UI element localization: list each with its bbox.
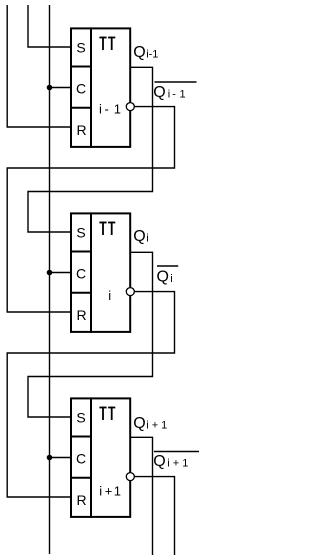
svg-text:i-1: i-1 [146, 49, 158, 61]
circuit schematic: chain of three T flip-flops (TT) stages i-1, i, i+1 [0, 0, 201, 560]
svg-text:Q: Q [133, 44, 145, 61]
wire: U2 inverted output to U3 R input [7, 292, 174, 497]
svg-text:i + 1: i + 1 [146, 420, 167, 432]
wire: clock stub to U2 C pin [50, 272, 71, 274]
wire: S input rail into U1 S pin [28, 5, 70, 47]
svg-text:Q: Q [153, 84, 165, 101]
svg-text:C: C [76, 451, 86, 467]
inversion bubble on U1 Qbar output [126, 103, 134, 111]
svg-text:S: S [76, 39, 85, 55]
junction node on clock rail at U1 [47, 85, 53, 91]
svg-text:+: + [105, 484, 113, 499]
svg-text:i: i [146, 233, 148, 245]
U1 (stage i-1) function label TT [99, 37, 115, 50]
svg-text:Q: Q [133, 228, 145, 245]
svg-text:i: i [170, 273, 172, 285]
svg-text:R: R [76, 122, 86, 138]
svg-text:S: S [76, 224, 85, 240]
flip-flop U2 (stage i) body outline [71, 213, 130, 332]
flip-flop U3 (stage i+1) body outline [71, 398, 130, 517]
U3 (stage i+1) S/C cell divider [70, 436, 92, 438]
U1 stage index label i-1 [99, 102, 121, 117]
svg-text:R: R [76, 307, 86, 323]
junction node on clock rail at U2 [47, 270, 53, 276]
wire: U3 Q output going down off-page [131, 437, 153, 555]
U3 (stage i+1) function label TT [99, 407, 115, 420]
U2 (stage i) function label TT [99, 222, 115, 235]
svg-text:Q: Q [133, 415, 145, 432]
svg-text:R: R [76, 492, 86, 508]
U1 (stage i-1) S/C cell divider [70, 66, 92, 68]
svg-text:i: i [99, 102, 102, 117]
wire: U1 inverted output to U2 R input [7, 107, 174, 312]
U2 (stage i) C/R cell divider [70, 292, 92, 294]
svg-text:C: C [76, 81, 86, 97]
svg-text:i: i [108, 288, 111, 303]
svg-text:-: - [172, 88, 176, 100]
wire: R input rail into U1 R pin [7, 5, 70, 127]
svg-text:i: i [168, 88, 170, 100]
inversion bubble on U3 Qbar output [126, 473, 134, 481]
junction node on clock rail at U3 [47, 455, 53, 461]
wire: U2 Q output to U3 S input [28, 252, 153, 417]
U2 (stage i) pin-field divider [90, 212, 92, 333]
U3 stage index label i+1 [99, 484, 121, 499]
svg-text:i + 1: i + 1 [167, 458, 188, 470]
svg-text:Q: Q [157, 268, 169, 285]
wire: clock rail C (common) [49, 5, 51, 554]
inversion bubble on U2 Qbar output [126, 288, 134, 296]
U3 (stage i+1) C/R cell divider [70, 477, 92, 479]
overline of label Qbar_i+1 [154, 451, 199, 453]
svg-text:1: 1 [114, 484, 121, 499]
wire: U1 Q output to U2 S input [28, 67, 153, 232]
wire: clock stub to U3 C pin [50, 457, 71, 459]
wire: U3 inverted output going down off-page [134, 477, 174, 555]
U2 (stage i) S/C cell divider [70, 251, 92, 253]
U3 (stage i+1) pin-field divider [90, 397, 92, 518]
svg-text:1: 1 [114, 102, 121, 117]
svg-text:-: - [105, 102, 109, 117]
svg-text:1: 1 [180, 88, 186, 100]
flip-flop U1 (stage i-1) body outline [71, 28, 130, 146]
svg-text:S: S [76, 409, 85, 425]
overline of label Qbar_i-1 [155, 81, 197, 83]
U1 (stage i-1) C/R cell divider [70, 107, 92, 109]
wire: clock stub to U1 C pin [50, 87, 71, 89]
svg-text:C: C [76, 266, 86, 282]
U1 (stage i-1) pin-field divider [90, 27, 92, 147]
svg-text:i: i [99, 484, 102, 499]
overline of label Qbar_i [157, 265, 178, 267]
svg-text:Q: Q [153, 453, 165, 470]
